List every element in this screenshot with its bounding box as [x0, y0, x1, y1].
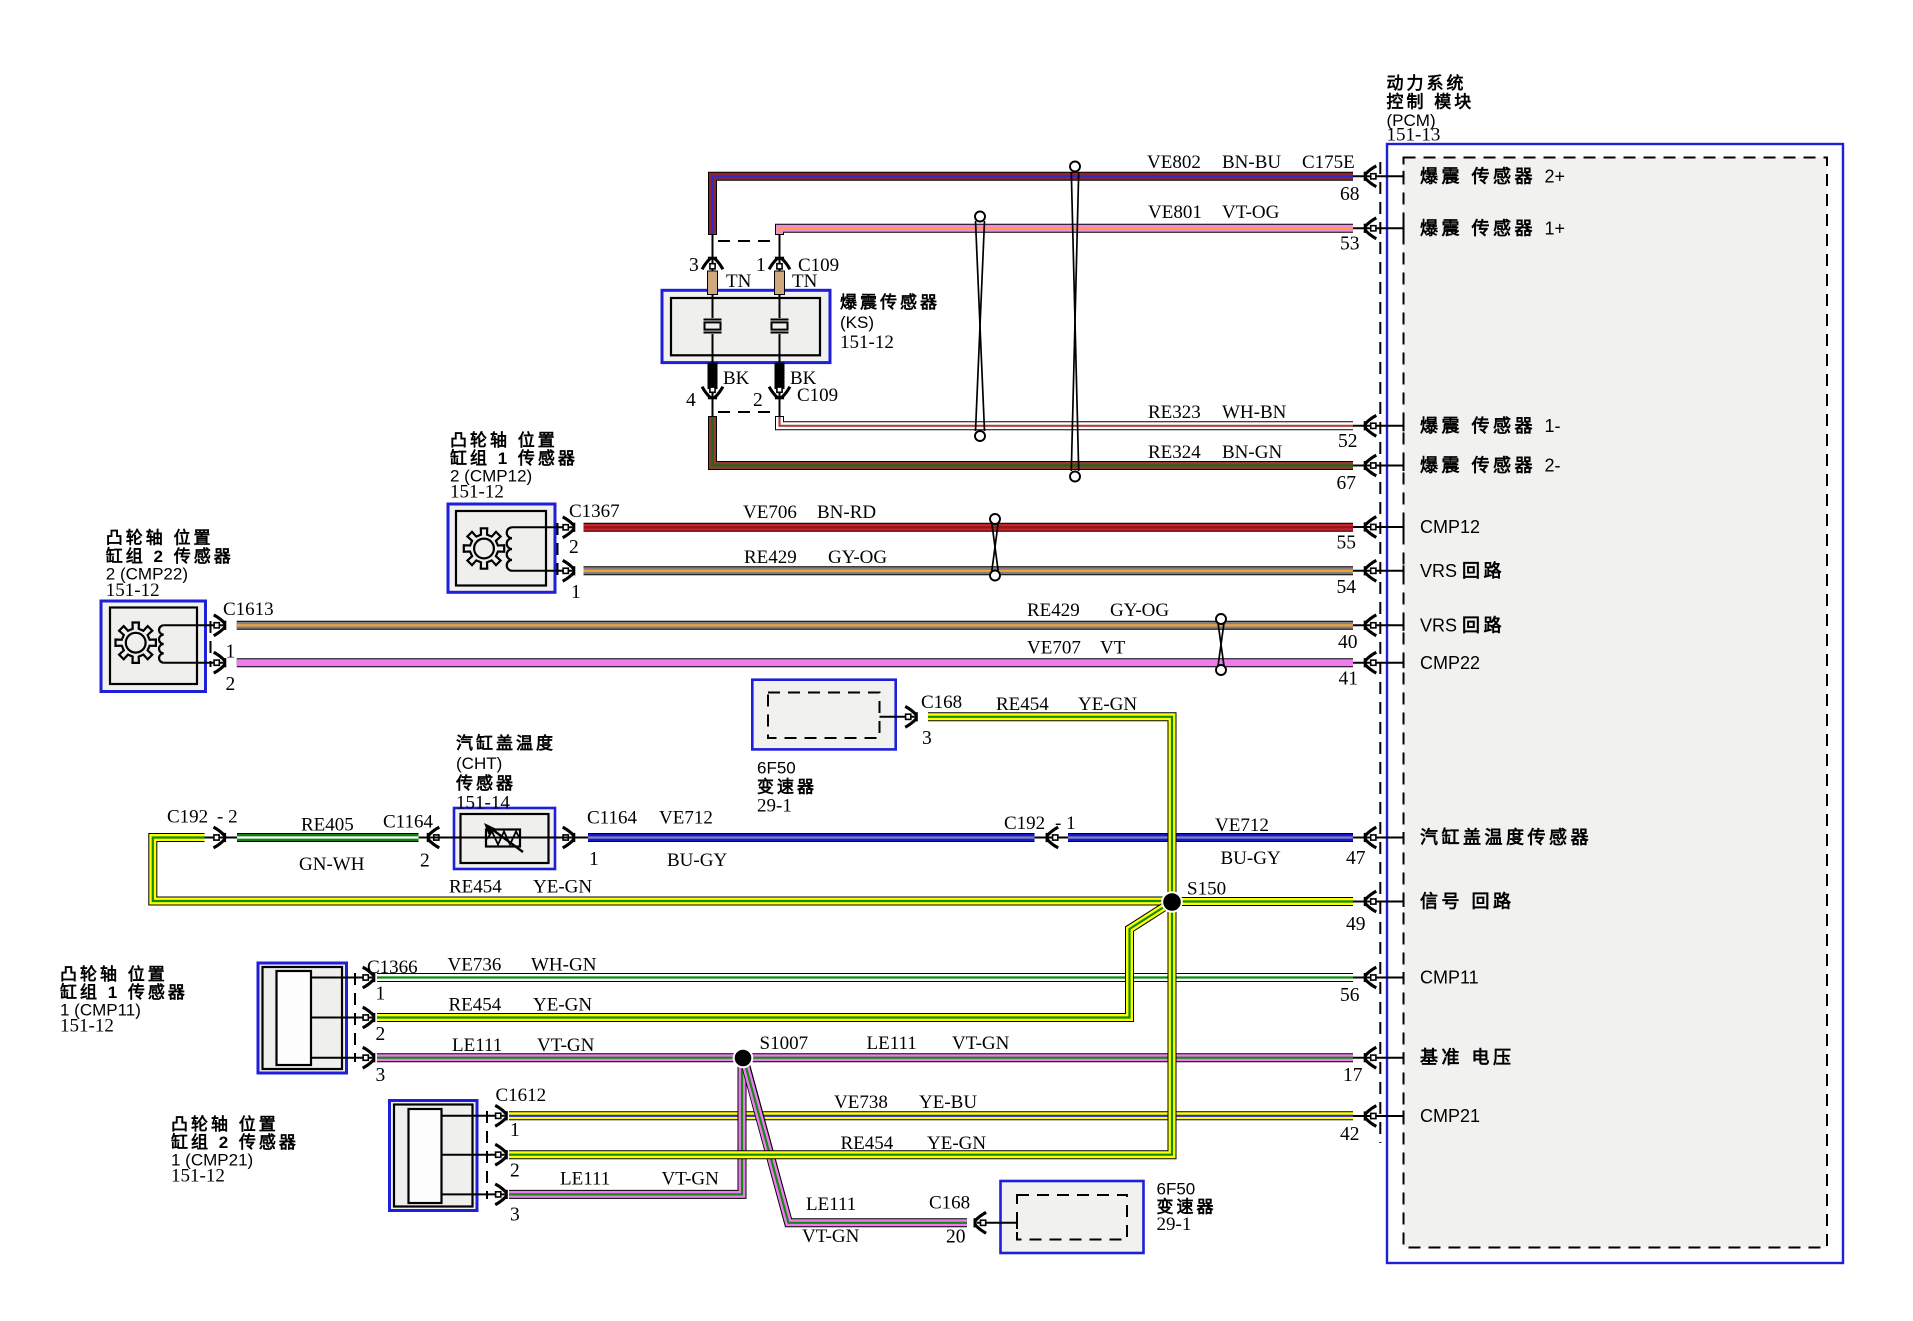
6F50 transmission box top — [752, 680, 914, 750]
svg-text:S1007: S1007 — [760, 1033, 809, 1054]
C1612 pin 1 arrow — [495, 1105, 508, 1126]
svg-text:TN: TN — [792, 271, 818, 292]
pin 17 arrow — [1364, 1047, 1377, 1068]
svg-text:1: 1 — [376, 984, 386, 1005]
svg-text:41: 41 — [1339, 669, 1359, 690]
wire RE454 YE-GN C168-3 vertical run — [509, 717, 1172, 1155]
svg-text:LE111: LE111 — [452, 1035, 502, 1056]
svg-text:YE-GN: YE-GN — [533, 877, 592, 898]
svg-text:C1366: C1366 — [367, 957, 418, 978]
svg-text:RE454: RE454 — [996, 694, 1049, 715]
svg-text:151-12: 151-12 — [106, 580, 160, 601]
svg-text:20: 20 — [946, 1227, 966, 1248]
C1366 pin 3 arrow — [363, 1047, 376, 1068]
svg-text:TN: TN — [726, 271, 752, 292]
pin 54 lead line — [1353, 570, 1404, 572]
svg-text:汽缸盖温度: 汽缸盖温度 — [456, 733, 556, 753]
svg-text:C168: C168 — [921, 692, 962, 713]
svg-text:BN-GN: BN-GN — [1222, 442, 1282, 463]
pin 67 lead line — [1353, 465, 1404, 467]
C109 pin 4 arrow — [702, 387, 723, 400]
C1164 pin 2 arrow — [427, 827, 440, 848]
svg-text:2: 2 — [420, 851, 430, 872]
C1366 pin 2 arrow — [363, 1007, 376, 1028]
wire LE111 VT-GN to C168 pin 20 — [744, 1059, 967, 1223]
svg-text:(KS): (KS) — [840, 313, 874, 332]
svg-text:4: 4 — [686, 390, 696, 411]
svg-text:YE-GN: YE-GN — [1078, 694, 1137, 715]
pin 52 arrow — [1364, 415, 1377, 436]
svg-text:3: 3 — [922, 728, 932, 749]
svg-text:凸轮轴 位置: 凸轮轴 位置 — [450, 430, 558, 450]
C1613 pin 1 arrow — [214, 615, 227, 636]
svg-text:RE429: RE429 — [744, 547, 797, 568]
svg-text:42: 42 — [1340, 1124, 1360, 1145]
svg-text:爆震 传感器 2-: 爆震 传感器 2- — [1420, 455, 1561, 476]
svg-text:VE712: VE712 — [659, 808, 713, 829]
svg-text:BN-BU: BN-BU — [1222, 152, 1281, 173]
connector C1613 dashed line — [210, 621, 212, 667]
svg-text:6F50: 6F50 — [757, 759, 796, 778]
6F50 transmission box bottom — [977, 1181, 1144, 1253]
wire VE707 VT — [237, 658, 1353, 667]
pin 67 arrow — [1364, 455, 1377, 476]
wire VE736 WH-GN — [377, 973, 1353, 982]
C1164 pin 1 arrow — [563, 827, 576, 848]
wire VE738 YE-BU — [509, 1111, 1353, 1120]
svg-text:RE324: RE324 — [1148, 442, 1201, 463]
C1367 pin 2 arrow — [563, 517, 576, 538]
svg-text:151-12: 151-12 — [450, 482, 504, 503]
connector C1367 dashed line — [557, 523, 559, 575]
svg-text:56: 56 — [1340, 985, 1360, 1006]
pin 40 lead line — [1353, 624, 1404, 626]
svg-text:29-1: 29-1 — [1157, 1214, 1192, 1235]
svg-text:54: 54 — [1337, 577, 1357, 598]
KS pin stub lines — [712, 235, 714, 318]
svg-text:67: 67 — [1337, 473, 1357, 494]
wire RE429 GY-OG upper — [584, 566, 1354, 575]
wire VE706 BN-RD — [584, 523, 1354, 532]
twisted pair CMP22 — [1216, 614, 1226, 675]
svg-text:凸轮轴 位置: 凸轮轴 位置 — [171, 1114, 279, 1134]
wire LE111 VT-GN row — [377, 1053, 1353, 1062]
wire RE454 YE-GN long left — [153, 838, 1172, 902]
svg-text:151-12: 151-12 — [171, 1166, 225, 1187]
pin 55 arrow — [1364, 517, 1377, 538]
svg-text:CMP21: CMP21 — [1420, 1106, 1480, 1126]
svg-text:3: 3 — [689, 255, 699, 276]
svg-text:C1164: C1164 — [587, 808, 637, 829]
pin 55 lead line — [1353, 526, 1404, 528]
svg-text:VT-GN: VT-GN — [802, 1226, 860, 1247]
svg-text:C168: C168 — [929, 1193, 970, 1214]
svg-text:基准 电压: 基准 电压 — [1419, 1047, 1515, 1068]
pin 49 lead line — [1353, 901, 1404, 903]
wire LE111 VT-GN CMP21 pin3 — [509, 1058, 742, 1194]
pin 42 arrow — [1364, 1106, 1377, 1127]
C192-2 arrow — [205, 827, 238, 848]
connector C109 top dashed line — [718, 240, 774, 242]
wire RE323 WH-BN — [780, 416, 1354, 426]
wire VE712 BU-GY left — [588, 833, 1035, 842]
svg-text:传感器: 传感器 — [455, 773, 516, 793]
svg-text:CMP22: CMP22 — [1420, 653, 1480, 673]
svg-text:VT-GN: VT-GN — [952, 1033, 1010, 1054]
svg-text:WH-BN: WH-BN — [1222, 402, 1287, 423]
svg-text:6F50: 6F50 — [1157, 1180, 1196, 1199]
svg-text:VT-GN: VT-GN — [662, 1169, 720, 1190]
svg-text:YE-BU: YE-BU — [919, 1092, 977, 1113]
svg-text:YE-GN: YE-GN — [533, 995, 592, 1016]
svg-text:151-12: 151-12 — [840, 332, 894, 353]
svg-text:C109: C109 — [797, 385, 838, 406]
svg-text:缸组 1 传感器: 缸组 1 传感器 — [450, 448, 578, 468]
svg-text:29-1: 29-1 — [757, 796, 792, 817]
svg-text:动力系统: 动力系统 — [1387, 73, 1467, 93]
connector C1366 dashed line — [354, 973, 356, 1062]
svg-text:缸组 2 传感器: 缸组 2 传感器 — [171, 1132, 299, 1152]
svg-text:爆震传感器: 爆震传感器 — [840, 292, 940, 312]
pin 53 lead line — [1353, 227, 1404, 229]
svg-text:VE738: VE738 — [834, 1092, 888, 1113]
svg-text:控制 模块: 控制 模块 — [1387, 92, 1475, 112]
svg-text:47: 47 — [1346, 848, 1366, 869]
pin 68 arrow — [1364, 166, 1377, 187]
C1612 pin 3 arrow — [495, 1184, 508, 1205]
svg-text:GY-OG: GY-OG — [828, 547, 887, 568]
C1366 pin 1 arrow — [363, 967, 376, 988]
svg-text:LE111: LE111 — [560, 1169, 610, 1190]
wire VE712 BU-GY right — [1068, 833, 1353, 842]
svg-text:缸组 2 传感器: 缸组 2 传感器 — [106, 546, 234, 566]
C109 pin 1 arrow — [769, 257, 790, 270]
svg-text:1: 1 — [756, 255, 766, 276]
svg-text:YE-GN: YE-GN — [927, 1133, 986, 1154]
svg-text:汽缸盖温度传感器: 汽缸盖温度传感器 — [1420, 827, 1592, 848]
wire RE324 BN-GN — [713, 416, 1354, 466]
svg-text:爆震 传感器 1-: 爆震 传感器 1- — [1420, 415, 1561, 436]
svg-text:2: 2 — [226, 674, 236, 695]
svg-text:40: 40 — [1338, 632, 1358, 653]
svg-text:VE802: VE802 — [1147, 152, 1201, 173]
svg-text:RE405: RE405 — [301, 815, 354, 836]
svg-text:52: 52 — [1338, 431, 1358, 452]
wire TN segment pin3 — [708, 271, 718, 295]
svg-text:凸轮轴 位置: 凸轮轴 位置 — [106, 528, 214, 548]
C1164 lead lines — [419, 837, 457, 839]
svg-text:C1613: C1613 — [223, 599, 274, 620]
pin 42 lead line — [1353, 1115, 1404, 1117]
svg-text:151-14: 151-14 — [456, 793, 510, 814]
CMP21 sensor box — [390, 1101, 505, 1211]
svg-text:RE323: RE323 — [1148, 402, 1201, 423]
CMP22 sensor box — [101, 601, 223, 692]
svg-text:S150: S150 — [1187, 879, 1226, 900]
svg-text:C175E: C175E — [1302, 152, 1355, 173]
svg-text:变速器: 变速器 — [757, 777, 817, 797]
svg-text:3: 3 — [510, 1205, 520, 1226]
pin 17 lead line — [1353, 1057, 1404, 1059]
svg-text:C1612: C1612 — [496, 1085, 547, 1106]
svg-text:爆震 传感器 1+: 爆震 传感器 1+ — [1420, 218, 1565, 239]
pin 56 arrow — [1364, 967, 1377, 988]
C168 pin 20 arrow — [974, 1212, 987, 1233]
CHT sensor box — [443, 808, 566, 869]
svg-text:GN-WH: GN-WH — [299, 854, 365, 875]
wire RE405 GN-WH — [237, 833, 419, 842]
svg-text:RE454: RE454 — [449, 877, 502, 898]
pin 54 arrow — [1364, 560, 1377, 581]
svg-text:C192: C192 — [1004, 813, 1045, 834]
svg-text:- 1: - 1 — [1055, 813, 1076, 834]
svg-text:爆震 传感器 2+: 爆震 传感器 2+ — [1420, 166, 1565, 187]
svg-text:LE111: LE111 — [806, 1194, 856, 1215]
wire VE802 BN-BU — [713, 176, 1354, 235]
pin 47 lead line — [1353, 837, 1404, 839]
svg-text:LE111: LE111 — [867, 1033, 917, 1054]
pin 47 arrow — [1364, 827, 1377, 848]
svg-text:BU-GY: BU-GY — [1221, 848, 1281, 869]
splice S150 — [1162, 892, 1182, 912]
svg-text:- 2: - 2 — [217, 807, 238, 828]
svg-text:VRS 回路: VRS 回路 — [1420, 615, 1505, 636]
svg-text:53: 53 — [1340, 234, 1360, 255]
svg-text:CMP11: CMP11 — [1420, 968, 1479, 988]
pin 53 arrow — [1364, 218, 1377, 239]
svg-text:3: 3 — [376, 1065, 386, 1086]
svg-text:WH-GN: WH-GN — [531, 955, 597, 976]
svg-text:VE712: VE712 — [1215, 815, 1269, 836]
pin 41 arrow — [1364, 652, 1377, 673]
CMP11 sensor box — [258, 963, 372, 1073]
svg-text:2: 2 — [569, 537, 579, 558]
C1613 pin 2 arrow — [214, 652, 227, 673]
svg-text:68: 68 — [1340, 184, 1360, 205]
svg-text:RE429: RE429 — [1027, 600, 1080, 621]
svg-text:17: 17 — [1343, 1065, 1363, 1086]
svg-text:VRS 回路: VRS 回路 — [1420, 560, 1505, 581]
svg-text:缸组 1 传感器: 缸组 1 传感器 — [60, 982, 188, 1002]
svg-text:55: 55 — [1337, 533, 1357, 554]
wire TN segment pin1 — [775, 271, 785, 295]
splice S1007 — [734, 1049, 753, 1068]
wire BK segment pin2 — [775, 363, 785, 390]
svg-text:VE706: VE706 — [743, 502, 797, 523]
C1367 pin 1 arrow — [563, 560, 576, 581]
svg-text:1: 1 — [571, 582, 581, 603]
pin 52 lead line — [1353, 425, 1404, 427]
svg-text:RE454: RE454 — [449, 995, 502, 1016]
svg-text:C1164: C1164 — [383, 812, 433, 833]
svg-text:VT: VT — [1100, 638, 1126, 659]
svg-text:信号 回路: 信号 回路 — [1420, 891, 1515, 912]
svg-text:1: 1 — [226, 642, 236, 663]
connector C1612 dashed line — [486, 1111, 488, 1199]
twisted pair KS1 — [975, 212, 985, 442]
svg-text:151-12: 151-12 — [60, 1016, 114, 1037]
knock sensor box KS — [662, 290, 830, 362]
svg-text:CMP12: CMP12 — [1420, 517, 1480, 537]
pin 56 lead line — [1353, 977, 1404, 979]
svg-text:VT-GN: VT-GN — [537, 1035, 595, 1056]
twisted pair KS2 — [1070, 162, 1080, 482]
wire RE454 YE-GN to pin 49 — [1172, 897, 1353, 906]
wire VE801 VT-OG — [780, 228, 1354, 235]
C1612 pin 2 arrow — [495, 1144, 508, 1165]
wire RE454 YE-GN CMP11 pin2 — [377, 903, 1171, 1018]
svg-text:151-13: 151-13 — [1387, 125, 1441, 146]
svg-text:1: 1 — [510, 1120, 520, 1141]
svg-text:2: 2 — [376, 1024, 386, 1045]
pin 40 arrow — [1364, 615, 1377, 636]
svg-text:2: 2 — [753, 390, 763, 411]
svg-text:2: 2 — [510, 1161, 520, 1182]
svg-text:RE454: RE454 — [841, 1133, 894, 1154]
svg-text:VE736: VE736 — [448, 955, 502, 976]
svg-text:凸轮轴 位置: 凸轮轴 位置 — [60, 964, 168, 984]
CMP12 sensor box — [448, 504, 572, 592]
svg-text:BN-RD: BN-RD — [817, 502, 876, 523]
svg-text:BU-GY: BU-GY — [667, 850, 727, 871]
svg-text:VE707: VE707 — [1027, 638, 1081, 659]
C109 pin 2 arrow — [769, 387, 790, 400]
C168 pin 3 arrow — [905, 706, 918, 727]
connector C175E dashed line — [1379, 162, 1381, 1143]
PCM module box — [1387, 144, 1843, 1263]
C109 pin 3 arrow — [702, 257, 723, 270]
wire BK segment pin4 — [708, 363, 718, 390]
pin 41 lead line — [1353, 662, 1404, 664]
svg-text:C192: C192 — [167, 807, 208, 828]
svg-text:GY-OG: GY-OG — [1110, 600, 1169, 621]
svg-text:(CHT): (CHT) — [456, 754, 502, 773]
pin 49 arrow — [1364, 891, 1377, 912]
wire RE429 GY-OG lower — [237, 621, 1353, 630]
pin 68 lead line — [1353, 175, 1404, 177]
svg-text:VT-OG: VT-OG — [1222, 202, 1280, 223]
svg-text:49: 49 — [1346, 914, 1366, 935]
KS crystal element 1 — [704, 320, 722, 333]
svg-text:1: 1 — [589, 849, 599, 870]
KS crystal element 2 — [771, 320, 789, 333]
connector C109 bottom dashed line — [718, 411, 774, 413]
svg-text:VE801: VE801 — [1148, 202, 1202, 223]
twisted pair CMP12 — [990, 514, 1000, 581]
C192-1 arrow — [1035, 827, 1069, 848]
svg-text:BK: BK — [723, 368, 750, 389]
svg-text:C1367: C1367 — [569, 501, 620, 522]
